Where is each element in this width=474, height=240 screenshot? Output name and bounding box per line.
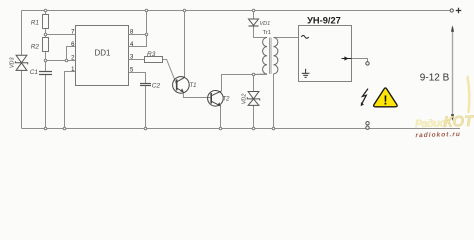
wire top rail [22,10,451,12]
svg-text:T2: T2 [223,97,231,103]
transformer primary winding [263,38,267,74]
node T2 collector - primary - VD2 [252,73,255,76]
diac VD3 [15,55,27,70]
node top rail T1 collector [183,9,186,12]
resistor R2 [43,38,49,52]
svg-text:DD1: DD1 [94,48,111,57]
wire VD2 to bottom rail [253,106,255,129]
svg-text:C1: C1 [30,69,39,76]
wire T2 emitter to bottom rail [220,106,222,129]
wire bottom rail [22,128,461,130]
diode VD1 [249,19,259,25]
node top rail pin8 net [145,9,148,12]
node R1-R2 pin7 tap [44,33,47,36]
node bottom rail VD2 [252,127,255,130]
wire R1 branch top [45,11,47,15]
lightning bolt [362,89,368,104]
svg-text:radiokot.ru: radiokot.ru [415,131,461,139]
node pin8-pin4 tie [145,33,148,36]
terminal plus output [366,62,369,65]
svg-text:УН-9/27: УН-9/27 [307,16,341,26]
svg-text:КОТ: КОТ [443,113,474,131]
resistor R3 [145,57,163,63]
AC input symbol [301,35,308,38]
svg-text:R1: R1 [31,20,40,27]
diac VD2 [247,92,259,106]
node top rail R1 [44,9,47,12]
svg-text:VD3: VD3 [10,57,16,69]
node bottom rail C1 [44,127,47,130]
wire R3 to T1 base [163,60,177,85]
wire T1 collector vertical [184,11,186,78]
wire pin1 [65,72,76,129]
svg-text:!: ! [383,94,387,108]
wire C1 to bottom rail [45,75,47,129]
svg-text:VD1: VD1 [260,21,271,27]
transistor Q1 T1 [173,77,190,94]
svg-text:T1: T1 [190,83,197,89]
wire VD1 drop from rail [253,11,255,20]
node pin2-pin6 tie [65,59,68,62]
resistor R1 [43,15,49,29]
wire primary bottom link [254,73,268,76]
transistor Q2 T2 [208,91,224,107]
svg-text:9-12 В: 9-12 В [420,73,450,84]
capacitor C2 [140,84,151,86]
warning triangle [374,88,398,107]
watermark logo [415,113,474,132]
node top rail VD1 [252,9,255,12]
wire junction to C1 [45,61,47,72]
dimension arrow 9-12V [452,27,454,120]
wire pin2 [46,60,76,62]
wire C2 to bottom rail [145,86,147,129]
plus sign top right [456,8,461,13]
wire pin3 to R3 [129,59,145,61]
terminal bottom output pair [366,122,369,125]
node bottom rail C2 [144,127,147,130]
wire left vertical [21,11,23,129]
watermark cat tail [468,76,470,113]
svg-text:R3: R3 [147,51,156,58]
wire transformer secondary bottom to rail [273,74,275,129]
wire pin6 branch [67,47,76,61]
IC U1 DD1 [76,26,129,86]
wire UN output [352,59,368,62]
svg-text:R2: R2 [31,44,40,51]
capacitor C1 [39,72,52,75]
svg-text:Tr1: Tr1 [263,30,271,36]
wire pin5 to C2 [129,73,146,84]
wire VD2 vertical [253,75,255,92]
wire pin4 to pin8 vertical [129,11,147,47]
transformer core [269,38,271,74]
ground [302,69,310,78]
node R2-C1 pin2 tap [44,59,47,62]
svg-text:C2: C2 [152,83,161,90]
wire R2 bottom [45,52,47,61]
wire transformer secondary top to UN block [274,37,299,39]
wire pin8 [129,34,147,36]
plus output arrow [342,58,352,60]
wire pin7 [46,34,76,36]
node bottom rail T2 emitter [219,127,222,130]
svg-text:VD2: VD2 [241,94,247,105]
wire T2 collector to transformer [222,75,267,91]
node bottom rail pin1 [63,127,66,130]
wire R1-R2 link [45,29,47,38]
node bottom rail secondary [272,127,275,130]
transformer secondary winding [274,38,278,74]
terminal top output [450,9,453,12]
svg-text:Радио: Радио [415,117,447,130]
wire VD1 to transformer top [254,26,268,38]
wire T1 emitter to T2 base [183,92,211,98]
amplifier module U2 UN-9/27 [299,26,352,82]
